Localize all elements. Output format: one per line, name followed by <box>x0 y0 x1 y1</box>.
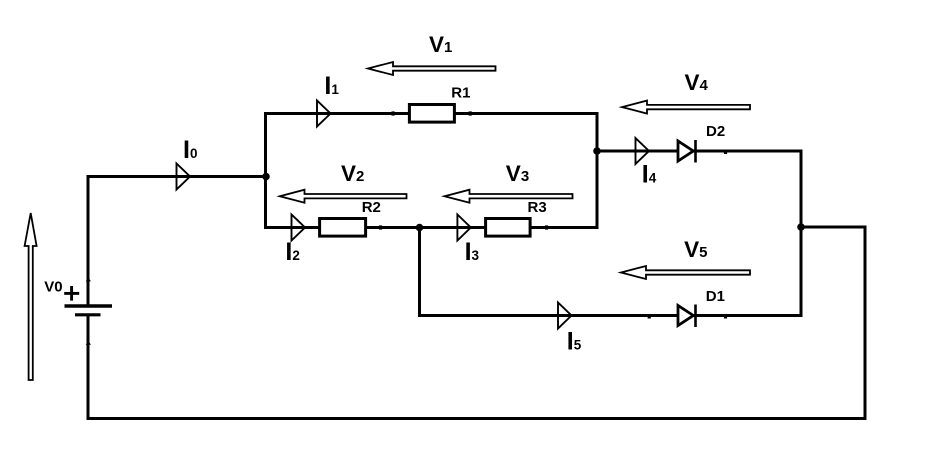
current arrow I5 <box>558 303 572 329</box>
wire: vertical from node B down to D1 branch <box>418 226 421 317</box>
wire: link from right outer vertical to node D <box>801 226 867 229</box>
svg-text:I3: I3 <box>465 238 480 266</box>
battery V0 top plate (long, +) <box>65 304 113 307</box>
resistor R1 body <box>409 105 454 123</box>
svg-text:D1: D1 <box>706 288 725 305</box>
wire: vertical from D2 branch through node D to D1 branch <box>800 150 803 318</box>
source voltage arrow V0 (hollow, pointing up) <box>25 213 37 380</box>
node A junction dot <box>262 173 270 181</box>
pin dot D2 right <box>724 150 727 154</box>
wire: top branch horizontal <box>264 112 599 115</box>
current arrow I2 <box>292 215 306 241</box>
svg-text:D2: D2 <box>706 123 725 140</box>
svg-text:V3: V3 <box>506 161 529 186</box>
svg-text:V4: V4 <box>685 70 709 95</box>
voltage arrow V4 (hollow, pointing left) <box>622 101 750 114</box>
battery V0 bottom plate (short, -) <box>75 313 101 316</box>
wire direction tick on left vertical (lower) <box>86 341 91 345</box>
svg-text:I5: I5 <box>567 328 582 356</box>
diode D2 (triangle and cathode bar) <box>678 140 697 163</box>
pin dot D1 left <box>648 315 651 319</box>
pin dot R2 right <box>379 225 382 229</box>
diode D1 (triangle and cathode bar) <box>678 305 697 328</box>
svg-text:I2: I2 <box>285 238 299 266</box>
svg-text:I0: I0 <box>183 136 197 164</box>
voltage arrow V3 (hollow, pointing left) <box>445 190 573 203</box>
wire: I0 horizontal from source to node A <box>88 175 267 178</box>
svg-text:R2: R2 <box>362 199 381 216</box>
svg-text:I4: I4 <box>642 161 657 189</box>
wire: D2 branch horizontal <box>597 150 803 153</box>
pin dot D1 right <box>724 315 727 319</box>
pin dot R1 left <box>392 111 395 115</box>
current arrow I1 <box>317 101 331 127</box>
node D junction dot <box>797 223 805 231</box>
node C junction dot <box>593 147 601 155</box>
wire: bottom return <box>87 417 867 420</box>
svg-text:V2: V2 <box>341 161 364 186</box>
pin dot R3 right <box>545 225 548 229</box>
wire: right inner vertical <box>596 112 599 229</box>
resistor R3 body <box>486 219 530 237</box>
wire: left outer vertical upper (source top lead) <box>87 175 90 306</box>
wire: right outer vertical <box>864 227 867 420</box>
node B junction dot <box>416 224 424 232</box>
voltage arrow V2 (hollow, pointing left) <box>280 190 407 203</box>
pin dot R1 right <box>469 111 472 115</box>
voltage arrow V1 (hollow, pointing left) <box>368 62 496 75</box>
wire: left outer vertical lower (source bottom lead) <box>87 316 90 420</box>
svg-text:V1: V1 <box>429 32 452 57</box>
svg-text:V5: V5 <box>684 237 707 262</box>
wire: middle branch horizontal <box>264 226 599 229</box>
battery plus sign <box>64 286 79 301</box>
current arrow I0 <box>177 164 191 190</box>
wire direction tick on left vertical (upper) <box>86 277 91 281</box>
svg-text:R1: R1 <box>451 85 470 102</box>
wire: left inner vertical (node A to top branch) <box>264 112 267 229</box>
voltage arrow V5 (hollow, pointing left) <box>621 266 750 279</box>
current arrow I4 <box>636 138 650 164</box>
resistor R2 body <box>320 219 366 237</box>
svg-text:I1: I1 <box>324 72 339 100</box>
wire: D1 branch horizontal <box>418 314 803 317</box>
current arrow I3 <box>457 215 470 241</box>
svg-text:R3: R3 <box>528 199 547 216</box>
svg-text:V0: V0 <box>44 278 62 295</box>
